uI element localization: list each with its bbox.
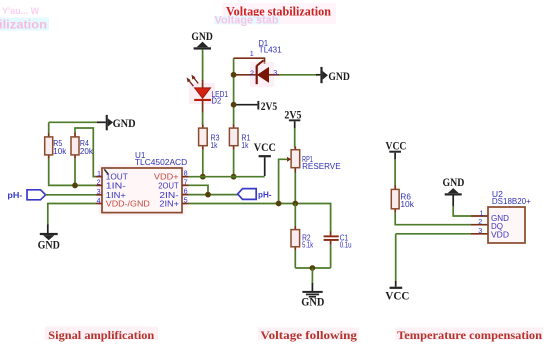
temperature sensor U2 box xyxy=(488,207,525,243)
wire: port to U1 pin3 xyxy=(46,194,96,196)
svg-text:6: 6 xyxy=(184,187,188,196)
svg-text:Signal amplification: Signal amplification xyxy=(48,328,154,342)
svg-text:GND: GND xyxy=(113,118,136,130)
svg-text:TL431: TL431 xyxy=(259,45,282,54)
svg-text:GND: GND xyxy=(301,296,324,308)
ground GND3 (arrow right) xyxy=(320,67,350,83)
wire: TL431 cathode column xyxy=(233,58,235,125)
wire: R2 bottom xyxy=(294,250,296,268)
wire: LED to R3 xyxy=(202,112,204,125)
wire: U1 pin4 to GND4 xyxy=(48,204,96,226)
svg-text:20k: 20k xyxy=(80,147,94,156)
wire: R4 bottom xyxy=(74,159,76,186)
svg-text:10k: 10k xyxy=(400,200,415,209)
svg-text:4: 4 xyxy=(97,196,101,205)
svg-text:pH-: pH- xyxy=(258,190,272,200)
resistor R4 xyxy=(71,133,79,159)
wire: bottom joining R2/C1 xyxy=(295,267,330,269)
svg-text:VDD+: VDD+ xyxy=(154,172,179,181)
power port VCC (top right) xyxy=(386,140,407,159)
wire: R3 bottom to VCC rail xyxy=(202,150,204,177)
wire: top rail to GND2 xyxy=(49,121,98,123)
section label: Signal amplification xyxy=(45,327,158,341)
section label: Temperature compensation xyxy=(395,328,543,341)
svg-text:D2: D2 xyxy=(212,96,222,105)
wire: bus to R2 xyxy=(294,204,296,227)
junction wiper/bus xyxy=(276,201,282,207)
svg-text:2V5: 2V5 xyxy=(261,101,278,113)
wire: GND6 to U2 pin1 xyxy=(452,196,454,207)
svg-text:3: 3 xyxy=(273,68,277,77)
svg-text:pH-: pH- xyxy=(7,190,22,200)
ground GND5 (earth) xyxy=(301,291,324,308)
svg-text:3: 3 xyxy=(478,226,482,235)
resistor R1 xyxy=(229,125,238,150)
svg-text:VCC: VCC xyxy=(385,290,409,302)
wire: VCC to R6 xyxy=(394,159,396,186)
ground GND2 (arrow right) xyxy=(106,115,136,130)
port pH- (left input) xyxy=(7,190,45,200)
power port 2V5 (second) xyxy=(284,109,301,128)
junction RP1/bus xyxy=(292,201,298,207)
wire: R5 top to top rail xyxy=(48,122,50,133)
wire: 2V5 stub xyxy=(234,104,258,106)
svg-text:Voltage stab: Voltage stab xyxy=(215,15,279,27)
svg-text:Voltage following: Voltage following xyxy=(260,328,357,342)
junction R1/rail xyxy=(231,174,237,180)
svg-text:1: 1 xyxy=(97,169,101,178)
svg-text:GND: GND xyxy=(443,177,465,189)
wire: RP1 bottom to bus xyxy=(294,173,296,204)
wire: U1 pin6 to port xyxy=(189,194,238,196)
U1 pin stubs right xyxy=(182,176,189,178)
wire: R5 bottom to U1 pin2 xyxy=(49,159,96,186)
TL431 pin 3 wire xyxy=(269,74,279,76)
svg-text:10k: 10k xyxy=(53,147,67,156)
power port VCC (middle) xyxy=(254,142,276,176)
faded ghost of title xyxy=(214,15,280,27)
ground GND4 (down arrow) xyxy=(38,233,60,252)
svg-text:GND: GND xyxy=(328,71,350,83)
svg-text:TLC4502ACD: TLC4502ACD xyxy=(135,158,188,167)
wire: TL431 ref loop xyxy=(234,58,265,64)
svg-text:1IN-: 1IN- xyxy=(106,181,126,190)
TL431 D1 symbol xyxy=(250,60,274,87)
svg-text:2: 2 xyxy=(97,178,101,187)
wire: C1 bottom xyxy=(330,245,332,268)
wire: 2V5 to RP1 xyxy=(294,128,296,148)
svg-text:5: 5 xyxy=(184,196,188,205)
power port VCC (bottom right) xyxy=(385,287,409,303)
svg-text:2: 2 xyxy=(478,217,482,226)
capacitor C1 xyxy=(324,232,339,245)
wire: to GND5 xyxy=(311,268,313,284)
svg-text:7: 7 xyxy=(184,177,188,186)
junction R3/rail xyxy=(200,174,206,180)
faded watermark text top-left xyxy=(0,6,49,32)
ground GND6 (tent) xyxy=(443,177,465,195)
wire: output bus U1 pin5 to C1 xyxy=(189,204,331,233)
junction TL431 pin2 xyxy=(231,72,237,78)
svg-text:VCC: VCC xyxy=(386,140,407,152)
wire: R4 top feedback xyxy=(75,128,96,177)
resistor R2 xyxy=(291,226,300,250)
svg-text:GND: GND xyxy=(38,239,60,251)
svg-text:1k: 1k xyxy=(211,141,219,150)
port pH- (second) xyxy=(238,189,272,200)
svg-text:VCC: VCC xyxy=(254,142,276,154)
U2 pin stubs xyxy=(471,215,488,217)
wire: U1 pin7 feedback xyxy=(189,185,209,194)
svg-text:GND: GND xyxy=(191,31,212,43)
wire: VCC bottom to U2 pin3 (VDD) xyxy=(396,233,471,235)
svg-text:5.1k: 5.1k xyxy=(302,240,314,249)
resistor R5 xyxy=(45,133,53,159)
resistor R6 xyxy=(391,186,399,213)
TL431 pin 2 wire xyxy=(234,74,257,76)
svg-text:2IN+: 2IN+ xyxy=(159,199,179,208)
svg-text:1k: 1k xyxy=(241,141,249,150)
svg-text:Temperature compensation: Temperature compensation xyxy=(397,328,542,342)
svg-text:1OUT: 1OUT xyxy=(106,172,128,181)
svg-text:0.1u: 0.1u xyxy=(340,240,352,249)
U1 pin1 marker xyxy=(104,169,108,174)
svg-text:VDD: VDD xyxy=(491,230,509,239)
svg-text:2: 2 xyxy=(250,69,254,78)
op-amp U1 box xyxy=(102,168,182,213)
svg-text:1: 1 xyxy=(250,49,254,58)
op-amp U1 halo xyxy=(99,165,186,216)
potentiometer RP1 xyxy=(279,147,300,204)
U1 pin stubs left xyxy=(96,176,102,178)
LED D2 xyxy=(187,75,215,113)
svg-text:VDD-/GND: VDD-/GND xyxy=(106,199,150,208)
wire: R1 bottom to VCC rail xyxy=(233,150,235,177)
resistor R3 xyxy=(199,125,208,150)
wire: GND1 to LED xyxy=(202,50,204,81)
svg-text:ilization: ilization xyxy=(0,20,47,32)
svg-text:DS18B20+: DS18B20+ xyxy=(492,197,531,206)
ground GND1 (top, tent) xyxy=(191,31,212,50)
svg-text:3: 3 xyxy=(97,187,101,196)
junction pin6/pin7 xyxy=(205,192,211,198)
power port 2V5 (first) xyxy=(257,101,277,113)
svg-text:Y'au... W: Y'au... W xyxy=(2,6,40,16)
svg-text:2OUT: 2OUT xyxy=(158,181,178,190)
junction at R4 bottom xyxy=(72,183,78,189)
svg-text:RESERVE: RESERVE xyxy=(302,162,341,171)
junction 2V5 stub xyxy=(231,102,237,108)
title halo xyxy=(222,3,336,24)
section label: Voltage following xyxy=(258,328,359,341)
wire: VCC rail (U1 pin8) xyxy=(189,176,265,178)
junction bottom/GND5 xyxy=(310,265,316,271)
wire: R6 to U2 pin2 (DQ) xyxy=(395,213,471,225)
